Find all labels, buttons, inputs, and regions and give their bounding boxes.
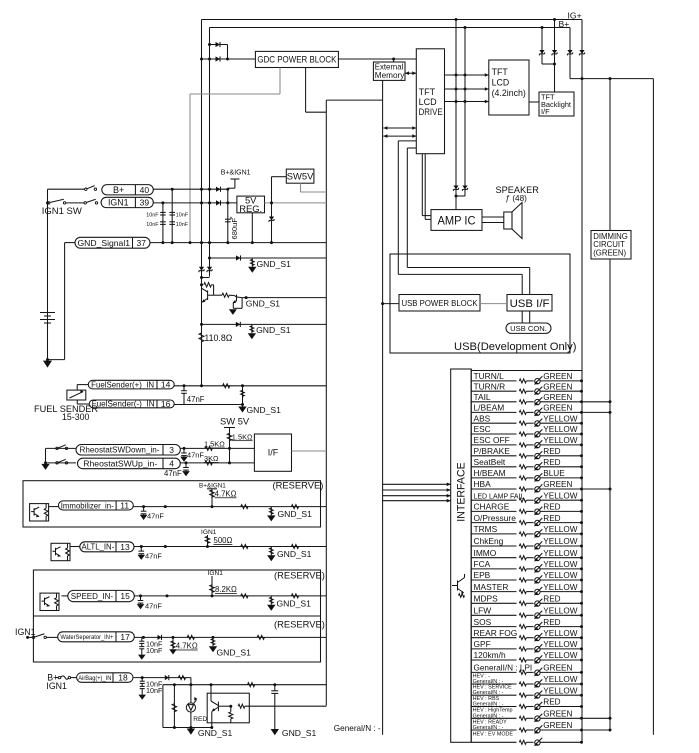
svg-text:TFT: TFT [419, 87, 436, 97]
svg-text:18: 18 [118, 673, 128, 683]
svg-text:REAR FOG: REAR FOG [474, 628, 518, 638]
svg-text:3: 3 [169, 445, 174, 455]
svg-text:YELLOW: YELLOW [543, 525, 577, 534]
svg-text:YELLOW: YELLOW [543, 414, 577, 423]
svg-text:8.2KΩ: 8.2KΩ [215, 585, 237, 594]
svg-text:IMMO: IMMO [474, 548, 497, 558]
svg-text:YELLOW: YELLOW [543, 686, 577, 695]
svg-text:AMP IC: AMP IC [438, 213, 476, 227]
svg-text:ABS: ABS [474, 413, 491, 423]
svg-text:IGN1: IGN1 [15, 627, 36, 637]
svg-text:13: 13 [120, 542, 130, 552]
svg-text:GREEN: GREEN [543, 372, 572, 381]
svg-text:GND_S1: GND_S1 [198, 728, 233, 738]
svg-text:14: 14 [161, 380, 171, 390]
svg-text:O/Pressure: O/Pressure [474, 513, 517, 523]
svg-text:GeneralI/N : LPI: GeneralI/N : LPI [474, 664, 533, 673]
svg-text:B+: B+ [113, 185, 124, 195]
svg-text:MDPS: MDPS [474, 594, 499, 604]
svg-text:37: 37 [137, 238, 147, 248]
svg-text:GPF: GPF [474, 639, 491, 649]
svg-text:GND_S1: GND_S1 [277, 549, 312, 559]
svg-text:GREEN: GREEN [543, 710, 572, 719]
svg-text:YELLOW: YELLOW [543, 425, 577, 434]
svg-text:RED: RED [543, 458, 560, 467]
svg-text:11: 11 [120, 501, 129, 511]
svg-text:RED: RED [193, 716, 207, 723]
svg-text:BLUE: BLUE [543, 469, 565, 478]
svg-text:ESC: ESC [474, 424, 491, 434]
svg-text:10nF: 10nF [146, 686, 163, 695]
svg-text:RheostatSWUp_in-: RheostatSWUp_in- [83, 459, 157, 468]
svg-text:SW5V: SW5V [287, 171, 314, 182]
svg-text:GND_Signal1: GND_Signal1 [77, 238, 130, 248]
svg-text:120km/h: 120km/h [474, 650, 506, 660]
svg-text:TURN/R: TURN/R [474, 381, 506, 391]
svg-text:WaterSeperator_IN+: WaterSeperator_IN+ [60, 634, 113, 641]
svg-text:EPB: EPB [474, 570, 491, 580]
svg-text:IGN1: IGN1 [201, 529, 217, 536]
svg-text:RED: RED [543, 503, 560, 512]
svg-text:GND_S1: GND_S1 [257, 259, 292, 269]
svg-text:TFT: TFT [492, 67, 509, 77]
svg-text:GND_S1: GND_S1 [282, 728, 317, 738]
svg-text:SW 5V: SW 5V [220, 416, 250, 427]
svg-text:USB POWER BLOCK: USB POWER BLOCK [402, 298, 478, 308]
svg-text:TRMS: TRMS [474, 524, 498, 534]
svg-text:H/BEAM: H/BEAM [474, 468, 506, 478]
svg-text:LED LAMP FAIL: LED LAMP FAIL [474, 493, 525, 500]
svg-text:I/F: I/F [268, 448, 279, 458]
svg-text:YELLOW: YELLOW [543, 537, 577, 546]
svg-text:RED: RED [543, 447, 560, 456]
svg-text:680uF: 680uF [230, 218, 239, 240]
svg-text:GREEN: GREEN [543, 404, 572, 413]
svg-text:LCD: LCD [492, 78, 510, 88]
svg-text:B+&IGN1: B+&IGN1 [221, 170, 251, 177]
svg-text:Memory: Memory [375, 71, 405, 80]
svg-text:1.5KΩ: 1.5KΩ [232, 432, 253, 441]
svg-text:47nF: 47nF [187, 395, 205, 404]
svg-text:Immobilizer_in-: Immobilizer_in- [61, 501, 114, 510]
svg-text:YELLOW: YELLOW [543, 571, 577, 580]
svg-text:GND_S1: GND_S1 [217, 648, 252, 658]
svg-text:FuelSender(-)_IN: FuelSender(-)_IN [92, 400, 155, 409]
svg-text:INTERFACE: INTERFACE [456, 462, 468, 521]
svg-text:REG.: REG. [239, 203, 262, 214]
svg-text:15: 15 [120, 591, 130, 601]
svg-text:General/N : -: General/N : - [473, 725, 504, 731]
svg-text:GND_S1: GND_S1 [247, 405, 282, 415]
svg-text:40: 40 [140, 185, 150, 195]
svg-text:(RESERVE): (RESERVE) [274, 570, 325, 581]
svg-text:GND_S1: GND_S1 [246, 299, 281, 309]
svg-text:15-300: 15-300 [62, 412, 89, 422]
svg-text:10nF: 10nF [146, 212, 159, 218]
svg-text:ALTL_IN-: ALTL_IN- [82, 543, 115, 552]
svg-text:(RESERVE): (RESERVE) [273, 480, 324, 491]
svg-text:MASTER: MASTER [474, 582, 509, 592]
svg-text:IGN1 SW: IGN1 SW [42, 206, 82, 217]
svg-text:GREEN: GREEN [543, 480, 572, 489]
svg-text:110.8Ω: 110.8Ω [204, 333, 232, 343]
svg-text:GREEN: GREEN [543, 664, 572, 673]
svg-text:HBA: HBA [474, 479, 492, 489]
svg-text:10nF: 10nF [176, 222, 189, 228]
svg-text:USB CON.: USB CON. [510, 324, 547, 333]
svg-text:(4.2inch): (4.2inch) [492, 88, 526, 98]
svg-text:P/BRAKE: P/BRAKE [474, 446, 511, 456]
svg-text:YELLOW: YELLOW [543, 675, 577, 684]
svg-text:RED: RED [543, 514, 560, 523]
svg-text:IGN1: IGN1 [108, 198, 129, 208]
svg-text:47nF: 47nF [145, 601, 162, 610]
svg-text:DRIVE: DRIVE [419, 107, 443, 117]
svg-text:YELLOW: YELLOW [543, 560, 577, 569]
svg-text:YELLOW: YELLOW [543, 491, 577, 500]
svg-text:YELLOW: YELLOW [543, 583, 577, 592]
svg-text:ƒ (48): ƒ (48) [506, 194, 528, 203]
svg-text:SOS: SOS [474, 617, 492, 627]
svg-text:GREEN: GREEN [543, 721, 572, 730]
svg-text:SeatBelt: SeatBelt [474, 457, 506, 467]
svg-text:47nF: 47nF [145, 551, 162, 560]
svg-text:General/N : -: General/N : - [473, 713, 504, 719]
svg-text:3KΩ: 3KΩ [204, 454, 219, 463]
svg-text:GDC POWER BLOCK: GDC POWER BLOCK [257, 55, 336, 65]
svg-text:RED: RED [543, 618, 560, 627]
svg-text:HEV : EV MODE: HEV : EV MODE [473, 732, 514, 738]
svg-text:17: 17 [120, 632, 130, 642]
svg-text:47nF: 47nF [147, 512, 164, 521]
svg-text:I/F: I/F [541, 107, 550, 116]
svg-text:47nF: 47nF [187, 451, 204, 460]
svg-text:10nF: 10nF [146, 646, 163, 655]
svg-text:YELLOW: YELLOW [543, 651, 577, 660]
svg-text:YELLOW: YELLOW [543, 549, 577, 558]
svg-text:LFW: LFW [474, 606, 492, 616]
svg-text:47nF: 47nF [164, 469, 182, 478]
svg-text:SPEED_IN-: SPEED_IN- [71, 592, 114, 601]
svg-text:AirBag(+)_IN: AirBag(+)_IN [78, 675, 111, 682]
svg-text:TAIL: TAIL [474, 392, 491, 402]
svg-text:FCA: FCA [474, 559, 491, 569]
svg-text:L/BEAM: L/BEAM [474, 403, 505, 413]
svg-text:IGN1: IGN1 [208, 570, 224, 577]
svg-text:GND_S1: GND_S1 [278, 509, 313, 519]
svg-text:GREEN: GREEN [543, 393, 572, 402]
svg-text:(RESERVE): (RESERVE) [274, 619, 325, 630]
svg-text:IG+: IG+ [568, 10, 582, 20]
svg-text:RED: RED [543, 698, 560, 707]
svg-text:1.5KΩ: 1.5KΩ [204, 440, 225, 449]
svg-text:16: 16 [161, 399, 171, 409]
svg-text:YELLOW: YELLOW [543, 607, 577, 616]
svg-text:(GREEN): (GREEN) [593, 249, 626, 258]
svg-text:ESC OFF: ESC OFF [474, 435, 510, 445]
svg-text:YELLOW: YELLOW [543, 640, 577, 649]
svg-text:CHARGE: CHARGE [474, 502, 510, 512]
svg-text:LCD: LCD [419, 97, 438, 107]
svg-text:4.7KΩ: 4.7KΩ [215, 489, 237, 498]
svg-text:YELLOW: YELLOW [543, 629, 577, 638]
svg-text:GND_S1: GND_S1 [277, 598, 312, 608]
svg-text:IGN1: IGN1 [46, 681, 67, 691]
svg-text:USB I/F: USB I/F [510, 298, 550, 310]
svg-text:RheostatSWDown_in-: RheostatSWDown_in- [80, 446, 160, 455]
svg-text:RED: RED [543, 595, 560, 604]
svg-text:39: 39 [140, 198, 150, 208]
svg-text:4: 4 [169, 459, 174, 469]
svg-text:4.7KΩ: 4.7KΩ [176, 642, 198, 651]
svg-text:GREEN: GREEN [543, 382, 572, 391]
svg-text:General/N : -: General/N : - [334, 724, 381, 733]
svg-text:10nF: 10nF [176, 212, 189, 218]
svg-text:FuelSender(+)_IN: FuelSender(+)_IN [91, 380, 154, 389]
svg-text:10nF: 10nF [146, 222, 159, 228]
svg-text:TURN/L: TURN/L [474, 371, 505, 381]
svg-text:General/N : -: General/N : - [473, 702, 504, 708]
svg-text:GND_S1: GND_S1 [256, 325, 291, 335]
svg-text:B+: B+ [559, 19, 570, 29]
svg-text:USB(Development Only): USB(Development Only) [454, 341, 577, 353]
svg-text:ChkEng: ChkEng [474, 536, 504, 546]
svg-text:YELLOW: YELLOW [543, 436, 577, 445]
svg-text:500Ω: 500Ω [214, 536, 233, 545]
